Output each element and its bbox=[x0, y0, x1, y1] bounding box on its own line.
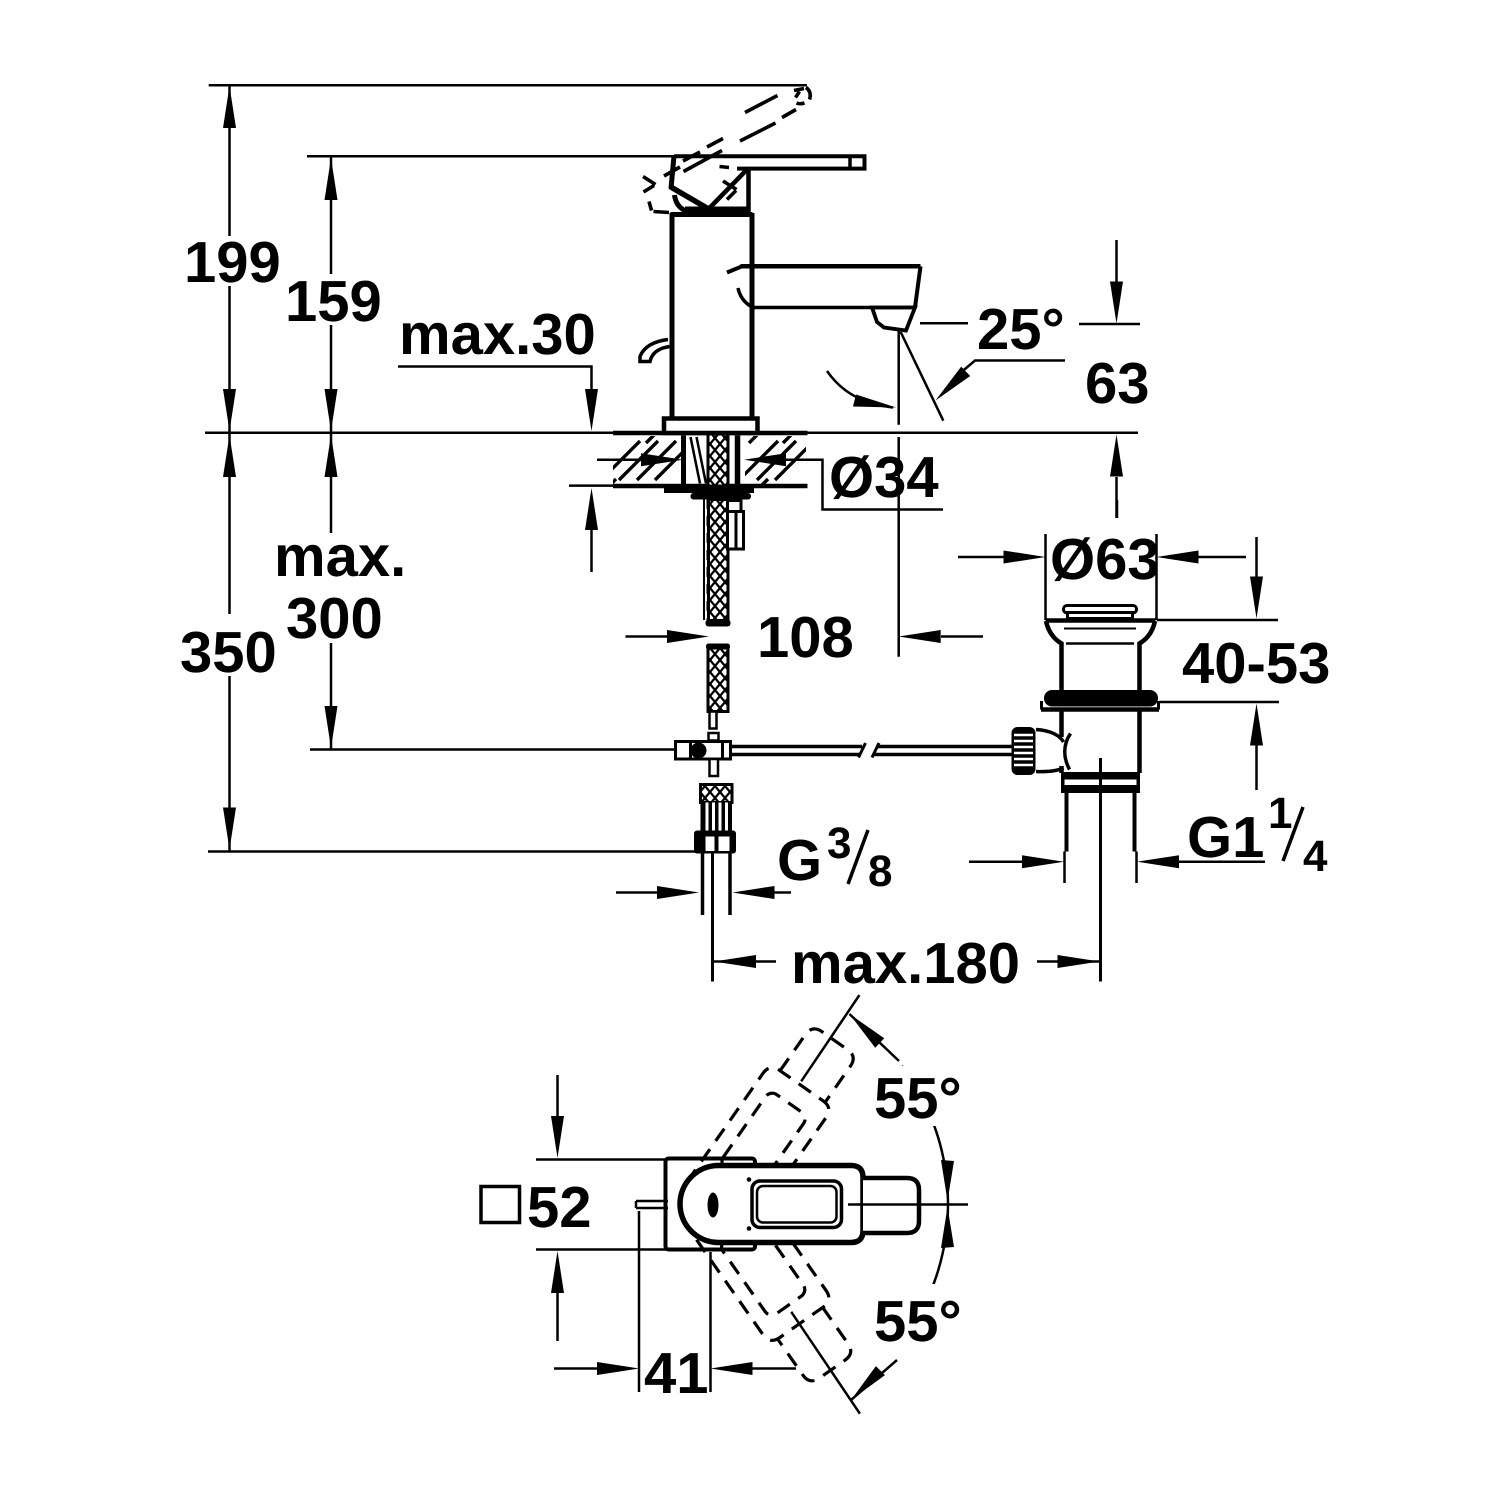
hose bottom cap bbox=[706, 620, 731, 627]
angle reference line 0deg bbox=[848, 1203, 968, 1206]
dim 41 line right bbox=[753, 1367, 797, 1370]
supply connector ribbed block bbox=[701, 803, 733, 831]
pop-up rod lever (side view) bbox=[640, 340, 670, 362]
arrow G3/8 left bbox=[657, 886, 699, 899]
radial line -55 bbox=[791, 1312, 860, 1414]
deck bottom line thin left bbox=[569, 484, 613, 487]
spout reference line below deck bbox=[897, 437, 900, 657]
dimension 63 vertical below deck bbox=[1115, 477, 1118, 518]
svg-text:41: 41 bbox=[644, 1341, 709, 1406]
angle arc lower bbox=[902, 1204, 948, 1342]
arrow G3/8 right bbox=[733, 886, 775, 899]
arrow 199 top bbox=[223, 86, 236, 128]
label square symbol bbox=[481, 1187, 520, 1223]
braided hose through deck bbox=[708, 434, 728, 486]
pull rod left span bottom bbox=[731, 753, 861, 757]
svg-text:108: 108 bbox=[757, 605, 854, 670]
drain flange top bbox=[1046, 618, 1156, 623]
40-53 vertical above bbox=[1255, 537, 1258, 577]
dashed rotated base outline right bbox=[720, 167, 737, 200]
extension line top (handle raised height 199 ref) bbox=[209, 84, 807, 87]
deck top line thin left bbox=[205, 432, 613, 435]
hose lower top cap bbox=[706, 644, 730, 650]
dimension line 159 vertical bbox=[330, 156, 333, 433]
svg-text:max.180: max.180 bbox=[791, 931, 1020, 996]
dashed lever lower outline bbox=[664, 110, 796, 177]
svg-text:300: 300 bbox=[286, 586, 383, 651]
lever end tab (top view) bbox=[863, 1178, 919, 1233]
arrow 63 bottom bbox=[1110, 435, 1123, 477]
svg-text:8: 8 bbox=[868, 847, 892, 896]
dimension G3/8 right segment bbox=[775, 891, 792, 894]
arrow 40-53 top bbox=[1250, 577, 1263, 619]
recess corner dots bbox=[747, 1177, 752, 1182]
dimension G3/8 left segment bbox=[616, 891, 657, 894]
drain knob top disc bbox=[1064, 606, 1137, 614]
arrow 108 left bbox=[667, 630, 709, 643]
braided hose lower segment bbox=[708, 646, 728, 712]
arc arrow lower at 0 end bbox=[941, 1207, 954, 1248]
D63 extension left bbox=[1044, 534, 1047, 620]
dimension line 350 vertical bbox=[228, 433, 231, 852]
leader to 55 lower bbox=[851, 1360, 897, 1400]
dimension D34 line right + leader to label bbox=[786, 460, 943, 510]
dimension 40-53 bottom line bbox=[1159, 701, 1279, 704]
svg-text:3: 3 bbox=[827, 819, 851, 868]
rod clip upper bbox=[728, 501, 742, 512]
leader line max.30 bbox=[398, 367, 592, 390]
svg-text:63: 63 bbox=[1085, 351, 1150, 416]
supply connector braid bbox=[701, 785, 733, 803]
mounting hole right edge bbox=[735, 436, 741, 485]
svg-text:52: 52 bbox=[527, 1175, 592, 1240]
arrow 41 left bbox=[597, 1362, 639, 1375]
spout underside bbox=[750, 306, 914, 310]
mounting hole left edge bbox=[681, 436, 686, 485]
leader to 55 upper bbox=[850, 1014, 900, 1061]
drain tailpiece right bbox=[1133, 793, 1137, 852]
dimension 108 left segment bbox=[626, 635, 669, 638]
spout root chamfer bbox=[727, 266, 742, 272]
40-53 vertical below bbox=[1255, 745, 1258, 790]
25deg slanted flow line bbox=[901, 332, 944, 421]
pop-up rod (top view) bbox=[636, 1201, 668, 1208]
drain tail extension left bbox=[1063, 852, 1066, 884]
dashed tip inner tick bbox=[796, 92, 800, 98]
pull rod left span top bbox=[731, 745, 863, 749]
drain centerline bbox=[1099, 758, 1102, 982]
dim 52 top line bbox=[536, 1158, 666, 1161]
arrow 350 bottom bbox=[223, 808, 236, 850]
G3/8 nut bbox=[694, 831, 736, 854]
drain flange left side bbox=[1046, 621, 1062, 691]
arrow max300 bottom bbox=[325, 706, 338, 748]
dim 41 line left bbox=[554, 1367, 597, 1370]
cartridge collar right edge bbox=[746, 167, 751, 213]
drain horn bottom bbox=[1036, 768, 1064, 772]
white mask under max. 300 bbox=[272, 533, 405, 643]
arrow max.30 to deck top bbox=[585, 389, 598, 431]
dimension G1 1/4 left segment bbox=[969, 860, 1022, 863]
arrow max180 right bbox=[1058, 955, 1100, 968]
arrow 159 top bbox=[325, 158, 338, 200]
drain body left upper bbox=[1059, 711, 1064, 737]
handle base front chamfer bbox=[670, 187, 710, 210]
arc arrow lower at 55 end bbox=[851, 1366, 885, 1400]
drain horn inner arc bbox=[1065, 734, 1071, 770]
drain rubber washer bbox=[1044, 690, 1158, 707]
svg-text:199: 199 bbox=[184, 230, 281, 295]
dashed raised handle (rotated position) bbox=[643, 88, 810, 213]
arrow max.30 to deck bottom bbox=[585, 488, 598, 530]
supply tube left edge bbox=[701, 854, 705, 916]
deck bottom line thick bbox=[613, 484, 808, 489]
dim 41 ext left bbox=[638, 1211, 641, 1392]
arrow 63 top bbox=[1110, 282, 1123, 324]
arrow 199 bottom bbox=[223, 389, 236, 431]
white mask under 55 lower bbox=[866, 1284, 978, 1348]
white mask under 199 bbox=[183, 236, 281, 286]
svg-text:159: 159 bbox=[285, 269, 382, 334]
svg-text:G: G bbox=[777, 828, 822, 893]
dimension 40-53 top line bbox=[1157, 619, 1278, 622]
drain bottom ring bbox=[1061, 772, 1140, 793]
svg-text:max.: max. bbox=[274, 524, 406, 589]
rod guide ball bbox=[691, 743, 707, 759]
spout front face bbox=[915, 266, 921, 307]
hose end connector bbox=[709, 733, 719, 741]
25deg angle arc bbox=[827, 371, 893, 408]
deck top line thin right bbox=[808, 432, 1139, 435]
shank thread lines bbox=[691, 437, 701, 484]
dimension 63 upper segment bbox=[1079, 323, 1140, 326]
drain knurled knob bbox=[1012, 727, 1036, 775]
25deg vertical reference line bbox=[897, 330, 900, 425]
escutcheon square base (top view) bbox=[666, 1159, 756, 1250]
faucet body left edge bbox=[670, 213, 675, 419]
mounting locknut bbox=[691, 493, 752, 500]
arrow 41 right bbox=[711, 1362, 753, 1375]
lever handle bar (side view) bbox=[674, 156, 865, 168]
arrow G1 1/4 right bbox=[1137, 855, 1179, 868]
dim 52 vertical above bbox=[556, 1075, 559, 1117]
drain body right bbox=[1137, 711, 1142, 773]
pull rod right span bottom bbox=[875, 753, 1013, 757]
supply tube centerline bbox=[711, 854, 714, 982]
dashed handle rotated up 55 bbox=[665, 1018, 865, 1258]
faucet body right edge bbox=[750, 213, 755, 419]
arrow on 25deg slant bbox=[936, 367, 971, 401]
dim 41 ext right bbox=[709, 1252, 712, 1392]
handle base right diagonal bbox=[709, 170, 748, 210]
drain tail extension right bbox=[1135, 852, 1138, 884]
svg-text:40-53: 40-53 bbox=[1182, 631, 1330, 696]
svg-text:25°: 25° bbox=[977, 297, 1065, 362]
arrow D63 right bbox=[1157, 551, 1199, 564]
max180 line left bbox=[714, 960, 776, 963]
label G 3/8 bbox=[777, 819, 892, 896]
hose end tube bbox=[710, 712, 717, 729]
arrow D63 left bbox=[1004, 551, 1046, 564]
max.30 lower leg bbox=[590, 530, 593, 572]
pop-up rod dashed line bbox=[707, 499, 709, 620]
lever inner recess outer bbox=[752, 1181, 842, 1228]
dimension 108 right segment bbox=[941, 635, 983, 638]
arrow 52 bottom bbox=[551, 1251, 564, 1293]
pull rod break cut left bbox=[859, 743, 866, 758]
dimension 63 vertical above bbox=[1115, 240, 1118, 282]
drain horn top bbox=[1036, 730, 1064, 743]
cartridge gap black bar bbox=[685, 207, 747, 215]
arrow on 25deg arc bbox=[853, 395, 896, 408]
arrow 350 top bbox=[223, 435, 236, 477]
arrow G1 1/4 left bbox=[1022, 855, 1064, 868]
extension line 159 ref (handle top) bbox=[307, 155, 674, 158]
svg-text:4: 4 bbox=[1303, 832, 1328, 881]
dashed lever tip cap bbox=[797, 88, 811, 104]
deck hatching right of hole bbox=[739, 434, 814, 487]
label G1 1/4 bbox=[1187, 789, 1328, 881]
link below fitting bbox=[710, 759, 719, 776]
25deg leader lower bbox=[962, 361, 1065, 372]
rod clip inner line bbox=[735, 512, 738, 550]
angle arc upper bbox=[902, 1066, 948, 1204]
dimension line max.300 vertical bbox=[330, 433, 333, 750]
arrow max300 top bbox=[325, 435, 338, 477]
svg-text:55°: 55° bbox=[874, 1289, 962, 1354]
dimension G1 1/4 right segment bbox=[1179, 860, 1265, 863]
lever inner recess inner bbox=[757, 1186, 837, 1223]
D63 extension right bbox=[1155, 534, 1158, 620]
svg-text:55°: 55° bbox=[874, 1066, 962, 1131]
max180 line right bbox=[1037, 960, 1100, 963]
arc arrow upper at 0 end bbox=[941, 1160, 954, 1201]
mounting washer bbox=[664, 487, 754, 494]
drain flange inner line 1 bbox=[1064, 628, 1136, 630]
dimension D34 line left bbox=[597, 458, 641, 461]
drain flange right side bbox=[1140, 621, 1156, 691]
rod guide fitting bbox=[676, 742, 731, 760]
handle base left edge bbox=[671, 156, 674, 189]
deck hatching left of hole bbox=[601, 434, 694, 487]
arrow 52 top bbox=[551, 1116, 564, 1158]
dimension D63 left segment bbox=[958, 556, 1004, 559]
rod clip lower bbox=[728, 512, 744, 550]
pop-up rod below deck bbox=[703, 499, 705, 620]
dimension bottom line 350 bbox=[208, 850, 697, 853]
handle base ball joint arc bbox=[675, 195, 690, 213]
arrow 40-53 bottom bbox=[1250, 704, 1263, 746]
svg-text:max.30: max.30 bbox=[399, 302, 596, 367]
drain knob rim bbox=[1068, 613, 1133, 619]
svg-text:1: 1 bbox=[1268, 789, 1292, 838]
cartridge mark bbox=[708, 1193, 719, 1218]
dashed handle rotated down 55 bbox=[665, 1150, 865, 1390]
aerator outlet bbox=[872, 308, 915, 331]
supply tube right edge bbox=[728, 854, 732, 916]
drain body left lower bbox=[1059, 766, 1064, 773]
drain washer lip bottom bbox=[1041, 707, 1159, 712]
braided hose upper segment bbox=[709, 500, 729, 621]
faucet baseplate bbox=[664, 419, 758, 434]
spout top edge bbox=[741, 264, 921, 269]
dim 52 bottom line bbox=[536, 1248, 667, 1251]
dimension D63 right segment bbox=[1199, 556, 1247, 559]
white mask under 55 upper bbox=[866, 1066, 978, 1126]
white mask under 159 bbox=[283, 274, 385, 325]
spout underside fillet bbox=[738, 288, 751, 307]
arrow D34 left bbox=[641, 453, 683, 466]
drain washer lip left bbox=[1040, 701, 1043, 710]
dim 52 vertical below bbox=[556, 1291, 559, 1341]
svg-text:350: 350 bbox=[180, 620, 277, 685]
25deg leader upper bbox=[920, 322, 968, 325]
body top shoulder line bbox=[671, 212, 753, 217]
lever bar end cap divider bbox=[848, 156, 852, 168]
svg-text:Ø34: Ø34 bbox=[829, 445, 939, 510]
lever handle (top view, solid) bbox=[680, 1166, 863, 1243]
white mask under 350 bbox=[178, 614, 278, 676]
arrow D34 right bbox=[744, 453, 786, 466]
drain centerline tick top bbox=[1116, 500, 1119, 518]
arrow 108 right bbox=[899, 630, 941, 643]
drain flange inner line 2 bbox=[1066, 642, 1134, 645]
dashed rotated base outline left bbox=[643, 177, 669, 213]
drain tailpiece left bbox=[1065, 793, 1069, 852]
arrow 159 bottom bbox=[325, 389, 338, 431]
dashed lever upper outline bbox=[683, 89, 804, 162]
svg-text:G1: G1 bbox=[1187, 805, 1264, 870]
pull rod break cut right bbox=[872, 743, 879, 758]
svg-text:Ø63: Ø63 bbox=[1050, 527, 1160, 592]
arc arrow upper at 55 end bbox=[850, 1014, 885, 1048]
radial line +55 bbox=[801, 995, 859, 1081]
deck top line thick middle bbox=[613, 431, 808, 436]
dimension line 199 vertical bbox=[228, 85, 231, 433]
pull rod right span top bbox=[877, 745, 1013, 749]
arrow max180 left bbox=[714, 955, 756, 968]
drain washer lip right bbox=[1157, 701, 1160, 710]
dimension bottom line max.300 bbox=[310, 748, 676, 751]
